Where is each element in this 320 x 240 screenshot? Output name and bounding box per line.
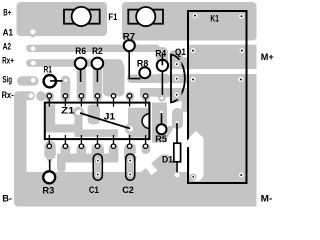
trace D1 column — [172, 108, 183, 129]
svg-text:R6: R6 — [75, 46, 86, 57]
K1 pin pad bottom-left — [190, 173, 197, 180]
trace stub near Z1 pin1 — [36, 91, 46, 101]
svg-text:R3: R3 — [42, 186, 54, 197]
trace between Q1 and K1 — [182, 57, 188, 112]
trace mountain under D1 — [140, 155, 176, 174]
trace Rx+ — [26, 59, 123, 66]
svg-text:Q1: Q1 — [175, 47, 187, 58]
pad Rx+ — [31, 61, 36, 66]
svg-text:R1: R1 — [44, 65, 53, 76]
svg-text:R7: R7 — [123, 31, 135, 42]
trace C2 column — [124, 144, 137, 163]
svg-text:C1: C1 — [89, 185, 100, 196]
trace Rx- stub — [14, 91, 35, 100]
pad Rx- — [29, 93, 34, 98]
trace column Z1 pin2 — [61, 76, 70, 102]
Z1 top pins — [47, 94, 148, 107]
K1 pin pad lower-left — [191, 77, 196, 82]
trace stub Z1 pin7 — [141, 92, 151, 102]
relay K1 outline — [188, 11, 247, 183]
pad Sig — [31, 78, 36, 83]
K1 pin pad top-left — [193, 13, 198, 18]
trace stub Z1 bottom pin7 — [141, 144, 151, 155]
svg-text:B+: B+ — [3, 8, 11, 19]
resistor R6 — [75, 58, 87, 70]
trace inside Z1 horizontal bar — [46, 124, 74, 132]
svg-text:Rx+: Rx+ — [2, 56, 14, 67]
trace inside Z1 riser to J1 pad — [74, 111, 82, 132]
copper pour top-right — [122, 2, 257, 41]
svg-text:A2: A2 — [3, 42, 12, 53]
trace R8 band — [127, 74, 171, 83]
trace Sig — [17, 76, 39, 85]
svg-text:R8: R8 — [137, 58, 148, 69]
resistor R5 — [158, 109, 165, 116]
trace inside Z1 bottom strip — [74, 129, 118, 137]
K1 inner isolation slot — [190, 131, 204, 181]
jumper J1 left pad — [73, 107, 84, 118]
svg-text:M+: M+ — [261, 52, 274, 63]
diode D1 — [174, 119, 181, 126]
svg-text:A1: A1 — [3, 28, 14, 39]
Z1 right edge redraw — [148, 103, 150, 138]
trace column Z1 pin3 — [77, 67, 87, 102]
resistor R3 — [47, 157, 52, 162]
jumper J1 right pad — [125, 123, 136, 134]
resistor R7 — [122, 38, 137, 53]
trace stub Z1 pin6 — [125, 92, 134, 102]
pad A2 — [31, 46, 36, 51]
trace stub Z1 bottom pin5 — [109, 144, 119, 163]
copper pour bottom slab — [17, 172, 257, 207]
trace A2 — [26, 45, 160, 52]
copper pour K1 column low — [188, 74, 257, 207]
K1 pin pad lower-right — [239, 77, 244, 82]
trace C1 column — [92, 144, 105, 163]
svg-text:R5: R5 — [155, 134, 167, 145]
pad A1 — [30, 32, 35, 37]
Z1 bottom pins — [47, 135, 148, 148]
trace band under Q1 pads — [140, 88, 187, 97]
trace R4 column — [157, 47, 168, 99]
trace R5 column — [152, 103, 167, 143]
svg-text:J1: J1 — [104, 112, 116, 123]
fuse F1 clip left — [64, 10, 100, 24]
K1 pin pad mid-right — [240, 48, 245, 53]
trace Q1 column — [170, 50, 184, 102]
svg-text:Z1: Z1 — [61, 105, 75, 116]
wire R7 to R8 — [129, 51, 140, 79]
svg-text:B-: B- — [2, 193, 12, 204]
svg-text:Rx-: Rx- — [2, 90, 14, 101]
svg-text:M-: M- — [261, 193, 273, 204]
K1 pin pad mid-left — [191, 48, 196, 53]
capacitor C2 — [126, 154, 135, 180]
transistor Q1 — [171, 55, 185, 103]
trace stub Z1 bottom pin2 — [61, 144, 70, 159]
svg-text:C2: C2 — [122, 185, 134, 196]
copper pour top-left — [17, 2, 108, 36]
capacitor C1 — [93, 154, 102, 180]
trace stub Z1 bottom pin1 — [44, 141, 56, 160]
Z1 IC body — [45, 103, 150, 140]
white isolation diagonal near D1 — [135, 151, 158, 176]
svg-text:Sig: Sig — [2, 74, 12, 85]
white isolation band across K1 and Q1 — [150, 69, 257, 74]
svg-text:K1: K1 — [210, 14, 219, 25]
jumper J1 wire — [80, 113, 130, 129]
resistor R4 — [157, 60, 168, 71]
trace wedge D1 to R5 — [159, 126, 176, 141]
svg-text:F1: F1 — [108, 12, 118, 23]
fuse F1 clip right — [128, 10, 163, 24]
white isolation band below Q1 middle pad — [150, 83, 188, 88]
svg-text:D1: D1 — [162, 155, 174, 166]
trace left column (Rx- to B-) — [14, 92, 27, 207]
copper pour K1 column mid — [188, 45, 257, 69]
Z1 orientation notch — [142, 114, 149, 129]
trace column Z1 pin4 — [93, 67, 103, 102]
K1 pin pad top-right — [239, 14, 244, 19]
svg-text:R2: R2 — [92, 46, 103, 57]
trace inside Z1 top column — [88, 105, 100, 125]
K1 pin pad bottom-right — [239, 173, 244, 178]
trace wide column Z1 pin5 — [103, 62, 125, 97]
trace column Z1 pin1 — [45, 92, 55, 102]
resistor R8 — [139, 67, 150, 78]
trace stub Z1 bottom pin3 — [77, 144, 87, 159]
trace L-band below Z1 pins 2-5 — [57, 154, 118, 163]
svg-text:R4: R4 — [155, 49, 167, 60]
white isolation notch around R3 lead — [29, 150, 59, 172]
trace inside Z1 left bar — [46, 105, 55, 133]
resistor R2 — [92, 58, 104, 70]
resistor R1 — [44, 75, 56, 87]
trace inside Z1 right blob — [128, 108, 148, 138]
Q1 pin pads — [173, 60, 182, 69]
